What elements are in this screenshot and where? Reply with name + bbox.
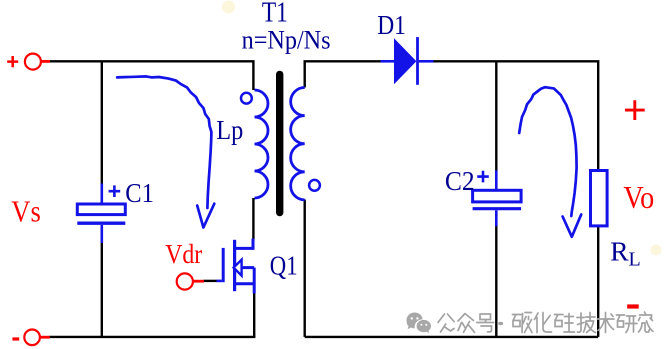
transformer core [276, 71, 283, 217]
svg-text:D1: D1 [377, 10, 406, 40]
wire: C1 branch upper [101, 61, 103, 184]
output current arrow (hand-drawn) [519, 87, 581, 237]
svg-text:C2: C2 [445, 166, 475, 196]
技 [577, 313, 596, 333]
wire: MOSFET source down to bottom wire [253, 293, 255, 337]
label + of input [7, 56, 18, 67]
drain connection [235, 239, 253, 249]
gate lead [217, 280, 222, 283]
pale artifact dot right [651, 245, 662, 256]
svg-text:Vdr: Vdr [165, 239, 202, 269]
output - label [627, 304, 639, 308]
MOSFET Q1 [217, 239, 255, 294]
watermark wechat icon [407, 313, 432, 334]
· [500, 322, 502, 325]
Vdr terminal circle [177, 273, 204, 289]
wire: bottom-left horizontal [50, 336, 256, 338]
wire: bottom-right horizontal [305, 336, 599, 338]
wire: C2 branch upper [495, 61, 497, 171]
wire: resistor bottom to bottom wire [597, 226, 599, 337]
terminal - (bottom-left red circle) [24, 330, 50, 346]
C1 polarity + [109, 185, 121, 197]
secondary polarity dot [309, 180, 320, 191]
svg-text:Vs: Vs [11, 194, 41, 229]
source connection [235, 268, 255, 294]
C2 polarity + [477, 171, 489, 183]
svg-text:T1: T1 [262, 0, 288, 28]
watermark text (drawn glyphs): 公众号·碳化硅技术研究 [438, 312, 653, 333]
capacitor C2 [473, 171, 521, 227]
碳 [513, 313, 533, 333]
化 [535, 313, 552, 333]
channel bar [233, 240, 236, 291]
研 [617, 315, 638, 333]
wire: C2 branch lower [495, 226, 497, 337]
wire: secondary winding bottom lead down [304, 200, 306, 337]
号 [477, 314, 494, 332]
svg-text:C1: C1 [125, 178, 154, 208]
body line [241, 266, 254, 269]
Lp current arrow (hand-drawn) [117, 76, 214, 227]
terminal + (top-left red circle) [25, 54, 50, 70]
wire: Vdr gate lead black segment [203, 280, 217, 282]
wire: top-left horizontal from + terminal to primary corner, down to winding [50, 61, 254, 90]
resistor RL [591, 171, 608, 226]
svg-text:Lp: Lp [216, 115, 243, 145]
body arrow [234, 260, 242, 276]
svg-text:Q1: Q1 [270, 249, 298, 280]
究 [639, 312, 654, 332]
wire: primary winding bottom to MOSFET drain [252, 198, 254, 240]
label - of input [12, 337, 19, 340]
wire: secondary top lead up and right to diode [305, 61, 381, 87]
svg-text:Vo: Vo [623, 179, 654, 215]
wire: diode to top-right corner, down to resistor [433, 61, 598, 170]
output + label [625, 100, 645, 120]
众 [458, 314, 475, 333]
diode D1 [381, 37, 434, 85]
wire: C1 branch lower [101, 243, 103, 337]
pale artifact dot top [222, 1, 235, 14]
gate bar [222, 248, 225, 282]
硅 [555, 314, 575, 333]
primary polarity dot [241, 93, 252, 104]
capacitor C1 [77, 184, 125, 244]
术 [598, 313, 615, 333]
transformer T1 primary winding Lp [255, 90, 269, 198]
公 [438, 314, 454, 332]
transformer T1 secondary winding [291, 88, 305, 200]
svg-text:n=Np/Ns: n=Np/Ns [242, 26, 331, 55]
